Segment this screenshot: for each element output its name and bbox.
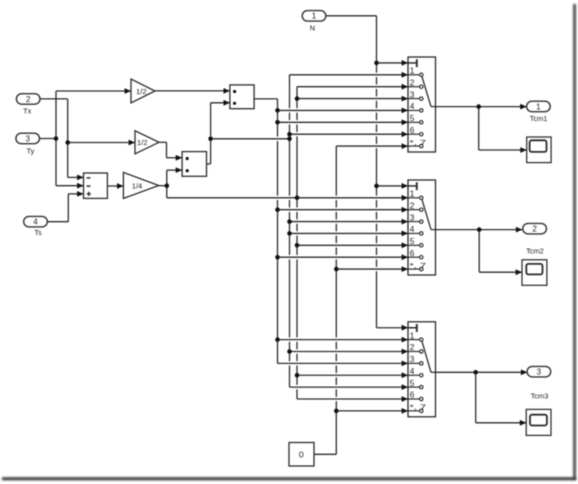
svg-text:4: 4 [410,224,415,234]
outport 1 (Tcm1) [527,101,551,123]
svg-text:Ty: Ty [26,146,34,155]
constant block value 0 [289,443,314,467]
multiport switch SW3 [408,322,436,417]
svg-text:4: 4 [410,101,415,111]
multiport switch SW1 [408,57,436,152]
inport 2 (Tx) [16,94,40,116]
junction C-G3out [165,183,170,188]
junction C-sw3in4 [295,373,300,378]
junction B-sw3in2 [287,349,292,354]
sum block Add (signs - - +) [84,173,108,198]
product P1 [182,152,206,177]
frame shadow bottom [2,477,576,480]
wire net C from gain G3 output [159,84,408,402]
svg-text:3: 3 [410,89,415,99]
outport 3 (Tcm3) [527,366,551,400]
gain G2 value 1/2 [135,131,159,154]
wire net Ts [47,191,83,222]
junction B-sw2in3 [287,219,292,224]
junction B-sw2in4 [287,231,292,236]
svg-text:4: 4 [33,218,38,227]
junction B-P1out [208,137,213,142]
junction A-sw2in2 [275,207,280,212]
svg-text:Tcm2: Tcm2 [526,246,544,255]
wire SW2 output to Tcm2 and scope2 [436,227,523,275]
wire net zero from constant 0 [314,143,408,454]
svg-text:6: 6 [410,390,415,400]
svg-text:5: 5 [410,236,415,246]
outport 2 (Tcm2) [523,223,547,255]
svg-text:3: 3 [537,368,542,377]
junction Ty-branch [54,136,59,141]
svg-text:2: 2 [410,77,415,87]
junction zero-sw2in7 [334,267,339,272]
svg-text:1/2: 1/2 [136,87,147,96]
svg-text:1: 1 [410,66,415,76]
junction A-sw2in6 [275,255,280,260]
wire sum output to gain G3 [107,183,123,189]
gain G1 value 1/2 [131,79,155,103]
junction sw1out [476,104,481,109]
scope Scope1 [527,137,551,163]
junction B-sw1in6 [287,132,292,137]
svg-text:*, 7: *, 7 [410,261,427,270]
svg-text:2: 2 [26,95,31,104]
svg-text:Tcm3: Tcm3 [531,392,549,401]
junction Tx-G2 [65,140,70,145]
junction sw3out [473,370,478,375]
frame shadow right [573,4,576,480]
wire SW3 output to Tcm3 and scope3 [436,369,528,425]
wire G1 output to product P2 input1 [155,88,230,94]
junction A-sw1in5 [275,120,280,125]
junction C-sw1in3 [295,96,300,101]
svg-text:2: 2 [410,342,415,352]
scope Scope2 [522,260,547,286]
svg-text:3: 3 [410,212,415,222]
svg-text:4: 4 [410,366,415,376]
junction N-sw1 [374,61,379,66]
junction C-sw2in5 [295,243,300,248]
scope Scope3 [526,409,551,435]
wire net B from product P1 output [207,72,409,390]
svg-text:*, 7: *, 7 [410,138,427,147]
svg-text:3: 3 [25,134,30,143]
wire SW1 output to Tcm1 and scope1 [436,104,527,153]
svg-text:1: 1 [410,330,415,340]
svg-text:6: 6 [410,248,415,258]
svg-text:3: 3 [410,354,415,364]
svg-text:2: 2 [532,225,537,234]
svg-text:1: 1 [536,102,541,111]
svg-text:5: 5 [410,113,415,123]
svg-text:Tx: Tx [23,106,32,115]
svg-text:1/4: 1/4 [132,181,143,190]
inport 3 (Ty) [16,133,40,155]
junction zero-sw3in7 [334,409,339,414]
product P2 [230,85,254,109]
wire net N from inport N to switch controls [326,16,408,331]
svg-text:6: 6 [410,125,415,135]
junction N-sw2 [374,184,379,189]
junction A-sw3in1 [275,337,280,342]
svg-text:1/2: 1/2 [137,138,148,147]
svg-text:*, 7: *, 7 [410,403,427,412]
wire net A from product P2 output [254,99,408,366]
gain G3 value 1/4 [123,172,158,198]
svg-text:1: 1 [312,12,317,21]
junction sw2out [477,227,482,232]
wire net Tx [40,99,135,180]
svg-text:N: N [310,24,315,33]
wire net Ty [40,88,132,189]
inport 1 (N) [302,11,326,33]
junction A-sw1in4 [275,108,280,113]
inport 4 (Ts) [24,216,48,237]
svg-text:2: 2 [410,200,415,210]
multiport switch SW2 [408,180,436,275]
svg-text:0: 0 [299,449,304,459]
wire G2 output to product P1 input1 [159,142,182,160]
junction C-long [295,196,300,201]
svg-text:1: 1 [410,189,415,199]
svg-text:Tcm1: Tcm1 [530,114,548,123]
svg-text:5: 5 [410,378,415,388]
svg-text:Ts: Ts [34,228,42,237]
junction B-long-end [287,137,292,142]
